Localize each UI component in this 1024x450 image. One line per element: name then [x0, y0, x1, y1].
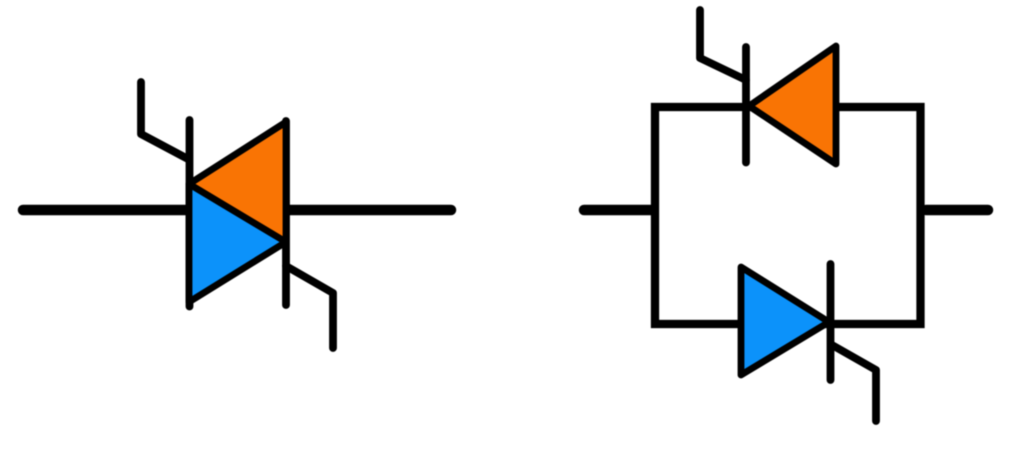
wire gate lead top-left of TRIAC: [141, 82, 188, 159]
wire gate lead bottom-right of TRIAC: [286, 266, 333, 348]
diode triangle upper (orange) of TRIAC: [189, 122, 286, 243]
node cathode bar of upper SCR: [742, 47, 750, 163]
diode triangle lower (blue) of TRIAC: [189, 184, 286, 302]
wire gate lead of upper SCR: [700, 10, 746, 80]
thyristor SCR2 triangle (blue, points right): [741, 267, 829, 375]
wire gate lead of lower SCR: [832, 345, 876, 421]
wire right external lead of SCR pair: [926, 205, 988, 216]
node left bar of TRIAC (MT1 plate): [186, 120, 194, 307]
node right bar of TRIAC (MT2 plate): [282, 121, 290, 305]
thyristor SCR1 triangle (orange, points left): [749, 46, 836, 164]
wire left external lead of SCR pair: [584, 205, 653, 216]
node cathode bar of lower SCR: [827, 264, 835, 380]
wire rectangle loop connecting the two SCRs: [655, 107, 921, 324]
wire MT1-MT2 horizontal lead of TRIAC: [23, 205, 451, 216]
